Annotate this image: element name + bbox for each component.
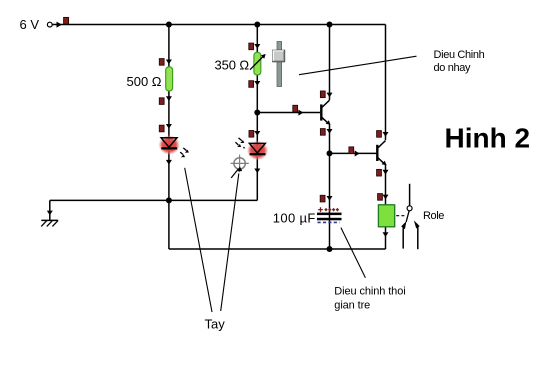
current arrow below R1: [166, 96, 172, 101]
current arrow above R1: [166, 60, 172, 65]
title Hinh 2: [445, 123, 531, 154]
junction node top-1: [166, 22, 172, 28]
current arrow above relay: [383, 195, 389, 200]
dashed actuator link: [396, 215, 405, 217]
probe P8 (base wire Q1): [293, 105, 298, 112]
svg-text:Hinh 2: Hinh 2: [445, 123, 531, 154]
wire top rail: [52, 24, 385, 26]
junction node top-2: [254, 22, 260, 28]
switch blade: [406, 211, 409, 222]
label Role: [423, 210, 444, 222]
wire ground rail: [50, 200, 257, 220]
svg-text:Dieu chinh thoi: Dieu chinh thoi: [334, 286, 405, 298]
switch pivot: [407, 206, 412, 211]
variable resistor R2 350Ω: [250, 52, 266, 75]
probe P10 (emitter Q1): [320, 129, 325, 136]
junction node base Q2: [327, 150, 333, 156]
resistor R1 500Ω: [166, 67, 173, 91]
current arrow emitter Q1: [327, 129, 333, 134]
value label 350 Ω: [215, 58, 250, 73]
wire base Q2: [330, 152, 377, 154]
svg-text:100 µF: 100 µF: [273, 210, 316, 225]
probe P9 (collector Q1): [320, 91, 325, 98]
current arrow above R2: [254, 44, 260, 49]
probe P14 (above relay): [378, 194, 383, 201]
wire branch 3 vertical (emitter Q1 to bottom rail): [329, 124, 331, 249]
label 6 V: [20, 17, 40, 32]
svg-text:500 Ω: 500 Ω: [127, 74, 162, 89]
current arrow above LED D1: [166, 124, 172, 129]
current arrow emitter Q2: [383, 170, 389, 175]
wire branch 4 vertical (collector Q2 segment): [385, 25, 387, 141]
current arrow base Q2: [355, 151, 360, 157]
current arrow collector Q1: [327, 93, 333, 98]
pointer line Tay to crosshair: [221, 174, 239, 312]
LED D1 (lit, glow): [158, 135, 180, 155]
probe P15 (above capacitor): [320, 195, 325, 202]
svg-text:Dieu Chinh: Dieu Chinh: [434, 49, 485, 61]
probe P5 (above R2): [249, 43, 254, 50]
switch contact right: [414, 220, 420, 249]
current arrow collector Q2: [383, 132, 389, 137]
pointer line Tay to LED D1: [185, 168, 212, 312]
svg-text:Tay: Tay: [205, 317, 226, 332]
svg-text:do nhay: do nhay: [434, 62, 472, 74]
cursor crosshair (light target): [231, 155, 249, 173]
pointer arrow into crosshair: [231, 166, 242, 178]
svg-text:350 Ω: 350 Ω: [215, 58, 250, 73]
LED D2 (lit, glow): [247, 141, 269, 161]
current arrow below R2: [254, 81, 260, 86]
LED D2 incident light arrows: [235, 138, 245, 149]
current arrow above capacitor: [327, 196, 333, 201]
current arrow below LED D2: [254, 169, 260, 174]
value label 500 Ω: [127, 74, 162, 89]
annotation pointer (capacitor delay): [341, 228, 366, 278]
transistor Q1 (NPN): [321, 100, 330, 125]
terminal (6V supply pin): [47, 22, 62, 28]
label Tay: [205, 317, 226, 332]
annotation Dieu chinh thoi gian tre: [334, 286, 405, 312]
capacitor C1 100µF (electrolytic): [317, 207, 342, 222]
probe P2 (above R1): [159, 59, 164, 66]
svg-text:6 V: 6 V: [20, 17, 40, 32]
wire branch 2 vertical: [256, 25, 258, 201]
probe P3 (below R1): [159, 98, 164, 105]
current arrow above LED D2: [254, 131, 260, 136]
probe P7 (above LED D2): [249, 131, 254, 138]
junction node top-3: [327, 22, 333, 28]
transistor Q2 (NPN): [377, 141, 386, 166]
svg-text:Role: Role: [423, 210, 444, 222]
current arrow base Q1: [298, 110, 303, 116]
annotation Dieu Chinh do nhay: [434, 49, 485, 74]
wire bottom rail: [169, 248, 386, 250]
probe P13 (emitter Q2): [377, 169, 382, 176]
current arrow below LED D1: [166, 160, 172, 165]
probe P12 (collector Q2): [377, 131, 382, 138]
annotation pointer (sensitivity slider): [299, 56, 417, 74]
probe P11 (base wire Q2): [349, 147, 354, 154]
switch contact (relay) top feed line: [409, 184, 411, 206]
probe P6 (below R2): [249, 81, 254, 88]
switch contact left: [401, 221, 406, 249]
probe P4 (above LED D1): [159, 125, 164, 132]
junction node base Q1: [254, 110, 260, 116]
probe P1 (top rail): [64, 17, 69, 24]
junction node bottom rail: [327, 246, 333, 252]
relay coil K1: [378, 205, 394, 227]
current arrow below relay: [383, 232, 389, 237]
value label 100 µF: [273, 210, 316, 225]
wire branch 1 vertical: [168, 25, 170, 250]
ground: [41, 211, 58, 227]
wire branch 4 vertical (emitter Q2 through relay to bottom rail): [385, 164, 387, 249]
wire branch 3 vertical (collector Q1 segment): [329, 25, 331, 101]
slider control (sensitivity adjust): [273, 42, 285, 87]
svg-text:gian tre: gian tre: [334, 300, 370, 312]
junction node ground rail: [166, 197, 172, 203]
LED D1 emission arrows: [180, 148, 189, 157]
wire base Q1: [257, 112, 320, 114]
